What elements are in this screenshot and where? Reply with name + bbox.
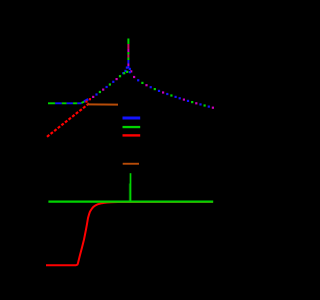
legend line green: [123, 126, 141, 128]
legend line red: [123, 134, 141, 136]
legend line orange: [123, 163, 139, 165]
green vertical marker: [130, 173, 132, 201]
red sigmoid curve: [46, 202, 213, 265]
legend line blue: [123, 117, 141, 120]
peak right slope (multicolor dotted): [129, 71, 214, 109]
red dashed rising line: [47, 103, 89, 136]
green horizontal asymptote line: [48, 200, 213, 202]
orange plateau segment: [88, 103, 119, 105]
peak left slope (multicolor dotted): [85, 72, 124, 103]
baseline dashed line (green+blue): [48, 99, 88, 103]
central spike (overlapping curves): [123, 39, 132, 75]
